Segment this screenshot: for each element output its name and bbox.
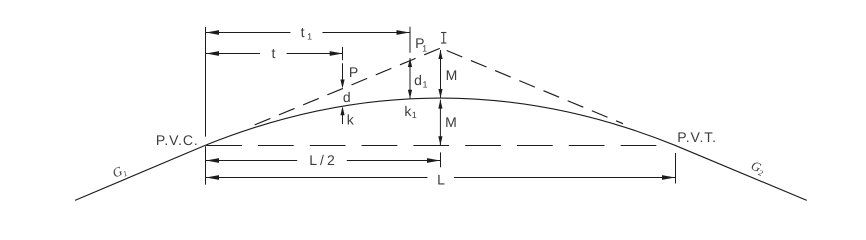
arrowhead L left bbox=[206, 175, 219, 180]
dimension line L/2 (right part) bbox=[347, 160, 440, 162]
svg-text:P.V.C.: P.V.C. bbox=[156, 132, 199, 148]
arrowhead L/2 left bbox=[206, 158, 219, 163]
offset arrow shaft P (down to tangent) bbox=[342, 63, 344, 84]
label I (serif strokes) bbox=[441, 33, 446, 44]
arrowhead t right bbox=[330, 51, 343, 56]
svg-text:L: L bbox=[437, 171, 445, 187]
arrowhead M lower bottom bbox=[438, 136, 442, 145]
arrowhead L right bbox=[662, 175, 675, 180]
arrowhead M upper bottom bbox=[438, 89, 442, 98]
arrowhead t left bbox=[206, 51, 219, 56]
label G2 bbox=[748, 158, 767, 178]
extension tick at end of t dimension bbox=[342, 47, 344, 60]
dimension line t (right part) bbox=[287, 53, 343, 55]
dimension line t (left part) bbox=[206, 53, 260, 55]
extension line at PVC (lower segment) bbox=[205, 146, 207, 184]
svg-text:P.V.T.: P.V.T. bbox=[677, 129, 717, 145]
svg-text:M: M bbox=[445, 114, 457, 130]
svg-text:1: 1 bbox=[307, 32, 312, 42]
svg-text:d: d bbox=[414, 72, 422, 88]
svg-text:P: P bbox=[349, 64, 358, 80]
arrowhead L/2 right bbox=[427, 158, 440, 163]
svg-text:d: d bbox=[343, 89, 351, 105]
dimension shaft M upper bbox=[440, 50, 442, 98]
extension tick at L right end bbox=[675, 153, 677, 184]
arrowhead t1 right bbox=[397, 30, 410, 35]
dimension line L/2 (left part) bbox=[206, 160, 297, 162]
svg-text:M: M bbox=[446, 67, 458, 83]
dimension shaft d1 bbox=[409, 58, 411, 99]
dimension line t1 (right part) bbox=[322, 32, 409, 34]
svg-text:1: 1 bbox=[422, 44, 427, 54]
offset arrow shaft k (up to curve) bbox=[342, 110, 344, 124]
extension tick at end of t1 dimension bbox=[409, 27, 411, 53]
arrowhead P down bbox=[340, 80, 344, 89]
svg-text:L/2: L/2 bbox=[309, 152, 337, 168]
svg-text:1: 1 bbox=[412, 110, 417, 120]
svg-text:t: t bbox=[272, 45, 276, 61]
dimension line L (right part) bbox=[454, 177, 675, 179]
arrowhead d1 bottom bbox=[408, 90, 412, 99]
arrowhead d1 top bbox=[408, 58, 412, 67]
dashed extended tangent PVC to I bbox=[255, 48, 441, 125]
dashed extended tangent I to PVT bbox=[447, 51, 623, 124]
arrowhead k up bbox=[340, 106, 344, 115]
arrowhead M lower top bbox=[438, 100, 442, 109]
grade line G2 (right tangent, solid) bbox=[675, 145, 807, 200]
label G1 bbox=[110, 162, 129, 182]
dimension line L (left part) bbox=[206, 177, 428, 179]
extension line at PVC (upper segment) bbox=[205, 27, 207, 137]
extension tick at L/2 right end bbox=[440, 152, 442, 167]
svg-text:k: k bbox=[347, 112, 355, 128]
dashed long chord PVC to PVT bbox=[206, 145, 656, 147]
svg-text:1: 1 bbox=[422, 79, 427, 89]
parabolic vertical curve PVC to PVT bbox=[206, 98, 675, 145]
arrowhead M upper top bbox=[438, 50, 442, 59]
arrowhead t1 left bbox=[206, 30, 219, 35]
dimension line t1 (left part) bbox=[206, 32, 290, 34]
svg-text:t: t bbox=[301, 24, 305, 40]
grade line G1 (left tangent, solid) bbox=[75, 145, 206, 200]
dimension shaft M lower bbox=[439, 100, 441, 146]
